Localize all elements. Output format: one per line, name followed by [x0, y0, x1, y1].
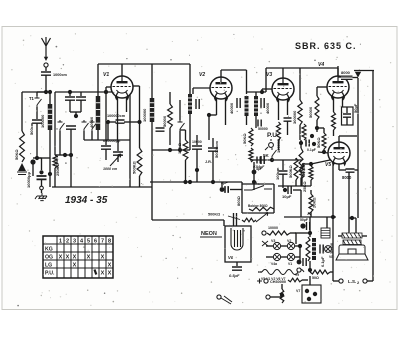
svg-text:X: X	[101, 271, 105, 277]
wire padder feed	[105, 92, 107, 145]
svg-text:100cm: 100cm	[275, 167, 280, 180]
wire stage2 vert	[189, 64, 191, 150]
svg-text:X: X	[73, 263, 77, 269]
wire 283 down	[282, 174, 284, 188]
wire IF2 sec bottom	[255, 116, 257, 128]
wire pot20k stub	[310, 190, 312, 194]
wire osc edge low	[54, 168, 56, 187]
node v4b b	[312, 142, 316, 146]
antenna terminal	[44, 63, 48, 67]
switch wave A	[58, 120, 65, 131]
ground antenna cap	[35, 193, 47, 201]
wire ch right	[302, 279, 308, 281]
coil choke	[312, 238, 316, 260]
box V6	[225, 226, 251, 262]
wire audio bus	[250, 159, 302, 161]
capacitor trimmer B	[76, 97, 86, 100]
wire V4 top stub	[337, 68, 339, 77]
wire 4uF stem	[221, 182, 223, 187]
wire V1 cath drop	[117, 118, 119, 140]
lamp fuse V8	[325, 246, 332, 253]
svg-text:V9: V9	[295, 273, 299, 277]
wire v4b up	[323, 128, 325, 133]
svg-text:OG: OG	[45, 255, 53, 261]
svg-text:7: 7	[101, 239, 104, 245]
svg-text:500KΩ: 500KΩ	[132, 160, 137, 174]
svg-text:X: X	[108, 263, 112, 269]
capacitor electrolytic psu	[300, 223, 305, 228]
wire osc top right	[96, 91, 130, 93]
resistor V2 screen	[168, 104, 173, 128]
switch T1	[35, 96, 42, 107]
capacitor 0.5uF	[232, 267, 242, 270]
node bus b	[211, 180, 215, 184]
wire 8000 right	[353, 77, 359, 79]
wire PU down	[271, 158, 273, 160]
wire xfmr feed	[349, 217, 356, 219]
capacitor screen	[156, 128, 165, 131]
wire jog	[37, 157, 42, 159]
capacitor psu3	[303, 258, 306, 266]
node PU bus	[270, 158, 274, 162]
wire right rail a	[357, 78, 359, 140]
wire main bus 182	[150, 181, 242, 183]
resistor V3 anode	[298, 100, 302, 125]
svg-text:20KΩ: 20KΩ	[312, 197, 317, 208]
wire 50uF top	[346, 107, 348, 113]
wire c50k down	[212, 151, 214, 182]
wire padder down	[105, 149, 107, 160]
wire V2 pin2	[225, 98, 227, 110]
wire V2 cath	[209, 114, 217, 116]
svg-text:50μF: 50μF	[300, 218, 308, 222]
wire bobine left edge	[241, 182, 243, 213]
svg-text:V1: V1	[103, 72, 109, 78]
lamp V3a	[273, 242, 280, 249]
wire V1 pin right	[126, 97, 128, 112]
wire far right rail	[357, 140, 359, 218]
resistor 10000 h	[267, 231, 290, 235]
wire lamps right2	[295, 256, 300, 258]
wire V4 to 8000	[338, 76, 341, 78]
wire V3 top bus	[266, 67, 338, 69]
wire trimmer B stub	[80, 92, 82, 96]
capacitor V5 bypass	[346, 169, 355, 172]
wire V2 cath drop	[208, 115, 210, 140]
wire ant to switch col	[37, 91, 46, 93]
svg-text:100000: 100000	[40, 114, 45, 128]
node osc left	[63, 153, 67, 157]
svg-text:300000: 300000	[292, 110, 297, 124]
wire left rail top	[21, 92, 23, 131]
resistor choke zig	[306, 237, 310, 261]
wire r1m down	[185, 160, 187, 182]
svg-text:10000μμ: 10000μμ	[26, 171, 31, 188]
terminal heater	[262, 231, 266, 235]
wire blob down	[32, 164, 34, 176]
wire lamps row2	[281, 256, 287, 258]
wire V1 pin left	[117, 97, 119, 118]
output tube V5	[328, 142, 350, 167]
svg-text:8: 8	[108, 239, 111, 245]
wiper arrow pot	[256, 213, 268, 223]
wire osc mid drop	[70, 155, 72, 187]
capacitor padder	[101, 146, 111, 149]
wire V4 grid	[317, 86, 327, 88]
terminal PU jack	[269, 143, 274, 148]
svg-text:2: 2	[66, 239, 69, 245]
wire chain drop	[281, 284, 283, 289]
wire V1 grid	[106, 86, 111, 88]
switch Ik	[244, 186, 272, 191]
resistor V3 bias	[277, 122, 281, 140]
capacitor 1000cm antenna	[41, 72, 51, 75]
wire 25K top link	[302, 163, 311, 165]
wire V1 anode down	[139, 86, 141, 148]
svg-text:L.S.: L.S.	[348, 279, 356, 284]
capacitor 4uF	[225, 186, 228, 193]
wire V1 left drop	[97, 64, 99, 92]
wire V3 grid drop	[261, 89, 263, 92]
wire V5 top	[338, 136, 340, 142]
wire 4uF right	[230, 189, 242, 191]
wire IF1 top	[151, 64, 153, 98]
wire coil bottom	[49, 130, 51, 174]
wire oscillator box	[54, 92, 56, 155]
svg-text:LG: LG	[45, 263, 52, 269]
svg-text:V4a: V4a	[271, 262, 277, 266]
wire c50k up	[212, 138, 214, 147]
wire 250K down	[300, 178, 302, 186]
wire xfmr drop b	[355, 218, 357, 233]
svg-text:100000: 100000	[142, 108, 147, 122]
svg-text:X: X	[66, 255, 70, 261]
coil IF2 primary	[245, 96, 249, 116]
wire trimmer mid down	[75, 112, 77, 118]
wire circ to gnd	[41, 190, 43, 193]
wire IF2 top bus	[247, 91, 267, 93]
resistor bobine 800	[249, 207, 274, 211]
capacitor 5K coupling	[261, 156, 264, 164]
svg-text:V3: V3	[271, 239, 275, 243]
coil IF1 primary	[150, 98, 155, 122]
capacitor 100000cm	[116, 120, 125, 123]
wire V4 grid drop	[316, 87, 318, 96]
wire xfmr left tap	[338, 235, 342, 237]
wire V1 top	[121, 64, 123, 76]
wire neon feed b	[236, 213, 238, 226]
wire osc bottom bus	[55, 154, 71, 156]
terminal CH	[264, 279, 268, 283]
svg-text:3: 3	[73, 239, 76, 245]
trimmer arrow	[110, 154, 121, 166]
capacitor 10000cm	[192, 146, 202, 149]
resistor hum	[280, 289, 284, 303]
wire c10k down	[196, 149, 198, 182]
plug PU	[265, 139, 271, 150]
node padder top	[104, 90, 108, 94]
coil IF2 secondary	[254, 96, 258, 116]
svg-text:V1: V1	[288, 262, 292, 266]
coil antenna L1	[48, 104, 53, 130]
wire lamp bend2	[295, 233, 297, 244]
wire xfmr right tap	[362, 235, 367, 237]
wire v4 top right link	[339, 135, 345, 137]
arrow x	[262, 241, 268, 246]
svg-text:T1: T1	[29, 96, 35, 101]
pentode V4	[327, 76, 349, 101]
node choke bot	[308, 268, 312, 272]
wire node to cap2	[41, 158, 43, 170]
resistor 500K b	[249, 148, 253, 162]
wire node ext	[33, 157, 37, 159]
underline NEON	[200, 236, 222, 238]
svg-text:V2: V2	[287, 239, 291, 243]
wire trimmer join	[70, 111, 81, 113]
svg-text:X: X	[59, 255, 63, 261]
wire V3 left rail	[265, 68, 267, 92]
wire lamps row1	[281, 245, 287, 247]
wire V3 res top	[299, 68, 301, 100]
wire choke bottom	[309, 261, 311, 270]
tuning indicator V6	[231, 228, 243, 250]
svg-text:X: X	[101, 255, 105, 261]
resistor 1M	[183, 140, 188, 160]
resistor 250K osc edge	[53, 155, 57, 168]
node left mid	[35, 156, 39, 160]
wire v3 bottom bus	[278, 185, 311, 187]
capacitor trimmer osc	[113, 152, 123, 155]
svg-text:V5: V5	[325, 162, 331, 168]
node lamp rail	[298, 244, 302, 248]
wire 10uF drop	[300, 190, 302, 217]
node antenna junction	[44, 90, 48, 94]
wire r1m hook	[180, 129, 186, 131]
node V3 junction	[299, 141, 303, 145]
svg-text:V7: V7	[296, 289, 300, 293]
wire L2 top	[97, 92, 99, 96]
svg-text:X: X	[87, 255, 91, 261]
node v4 grid bot	[315, 126, 319, 130]
wire trimmer A down	[69, 100, 71, 112]
wire 500K up	[295, 158, 297, 160]
wire res screen top	[169, 92, 171, 104]
wire bottom left	[49, 174, 51, 187]
svg-text:V4: V4	[318, 62, 324, 68]
capacitor 500cm	[32, 120, 42, 123]
wire osc top	[55, 91, 96, 93]
resistor V5 bias	[309, 166, 313, 180]
svg-text:X: X	[108, 271, 112, 277]
capacitor to ground	[37, 176, 47, 179]
arrow 500K	[228, 216, 240, 220]
svg-text:25KΩ: 25KΩ	[302, 181, 307, 192]
wire lamps left2	[266, 256, 273, 258]
wire trimmer osc up	[117, 140, 119, 151]
svg-text:V6: V6	[228, 255, 234, 260]
svg-text:50Ω: 50Ω	[312, 276, 319, 280]
wire 50ohm right	[330, 271, 333, 273]
wire v5 right	[345, 135, 357, 137]
capacitor 50uF	[343, 114, 351, 117]
speaker frame	[339, 245, 365, 254]
wire V1 anode out	[131, 85, 140, 87]
wire lamp bend	[290, 232, 296, 234]
wire V7 up	[309, 276, 311, 285]
node 4uF blob	[220, 187, 225, 192]
wire V4 pins	[333, 97, 335, 112]
wire V5 down	[348, 172, 350, 218]
wire lamp row1 right	[295, 245, 300, 247]
wire V1 cath	[108, 121, 116, 123]
svg-text:100000cm: 100000cm	[107, 114, 126, 118]
resistor 20K pot	[309, 194, 313, 212]
capacitor V2 grid tank	[196, 99, 199, 109]
wire V1 cath right	[124, 121, 140, 123]
wire V4 top	[337, 66, 339, 76]
wire 50K down	[323, 149, 325, 152]
node stage2 a	[168, 148, 172, 152]
switch wave C	[90, 120, 97, 131]
node psu bus	[308, 231, 312, 235]
resistor 50K ohm antenna	[20, 131, 25, 162]
wire left rail horiz	[22, 91, 46, 93]
wire psu bus	[295, 232, 310, 234]
wire r1m up	[185, 130, 187, 140]
wire V4 pin2	[342, 97, 344, 107]
capacitor 50000n	[258, 120, 261, 127]
wire pu switch drop	[253, 182, 255, 190]
svg-text:10μF: 10μF	[282, 194, 292, 199]
node trimmer mid	[74, 114, 78, 118]
svg-text:V3: V3	[266, 72, 272, 78]
node pu drop	[252, 180, 256, 184]
resistor ch	[288, 278, 302, 282]
scan noise speckles	[8, 33, 393, 306]
terminal V9	[297, 268, 301, 272]
svg-text:0.5μF: 0.5μF	[229, 273, 240, 278]
svg-text:0.1μF: 0.1μF	[320, 256, 325, 267]
resistor 50ohm	[310, 270, 330, 274]
wire coil top	[49, 92, 51, 104]
capacitor psu plates	[307, 222, 310, 230]
wire V3 grid	[262, 88, 272, 90]
svg-text:1000 cm: 1000 cm	[103, 167, 118, 171]
wire V3 top	[282, 68, 284, 78]
wire T1 to cap	[36, 107, 38, 119]
box V7	[302, 285, 321, 303]
coil oscillator L2	[96, 96, 101, 130]
terminal gnd circ	[40, 186, 44, 190]
triode V1	[111, 76, 133, 101]
svg-text:6: 6	[94, 239, 97, 245]
wire V2 grid	[193, 87, 210, 89]
wire trimmer osc down	[117, 155, 119, 162]
node anode cath	[137, 120, 141, 124]
svg-text:4μF: 4μF	[220, 181, 228, 185]
capacitor V3 cath	[284, 118, 292, 121]
wire top cap down	[372, 71, 374, 216]
wire trimmer feed	[69, 92, 71, 96]
wire bobine top edge	[242, 183, 274, 185]
svg-text:8000: 8000	[341, 70, 351, 75]
svg-text:50000: 50000	[308, 106, 313, 118]
wire lamps left1	[266, 245, 273, 247]
wire IF2 sec top	[255, 92, 257, 96]
speaker magnet	[348, 249, 356, 254]
svg-text:CH30000: CH30000	[270, 280, 286, 284]
resistor AVC 500K	[249, 128, 253, 146]
node 10uF	[283, 188, 287, 192]
resistor 50K v4	[322, 133, 326, 149]
node c10k	[195, 168, 199, 172]
wire res screen bot	[169, 128, 171, 145]
node v4 grid2	[322, 150, 326, 154]
wire winding drop	[326, 217, 328, 228]
wire hum link	[270, 296, 282, 298]
node AVC blob	[252, 170, 257, 175]
lamp V4a	[273, 253, 280, 260]
terminal hum	[266, 295, 270, 299]
svg-text:5: 5	[87, 239, 90, 245]
node cap2 top	[39, 170, 43, 174]
wire V2 top	[220, 70, 222, 77]
wire V3 pins	[278, 99, 280, 120]
wire L2 bottom	[97, 130, 99, 140]
svg-text:500KΩ: 500KΩ	[288, 164, 293, 178]
node coil top	[48, 90, 52, 94]
pin V7 a	[305, 289, 309, 293]
svg-text:J.R.: J.R.	[205, 160, 212, 164]
wire bus bottom left	[52, 186, 152, 188]
node hum	[280, 293, 284, 297]
wire cap2 to circ	[41, 179, 43, 186]
wire IF1 bottom	[151, 122, 153, 187]
svg-text:40000: 40000	[89, 116, 94, 128]
node V2 cathode	[207, 113, 211, 117]
wire res500k bot	[139, 176, 141, 187]
node V1 cath	[106, 120, 110, 124]
wire heater chain	[262, 270, 304, 275]
node bus a	[183, 180, 187, 184]
wire V2 anode drop	[246, 70, 248, 94]
coil 8000 field	[341, 76, 353, 81]
wire trimmer B down	[80, 100, 82, 112]
wire heater left	[258, 271, 262, 273]
node blob 33	[30, 159, 35, 164]
wire V3 bias down	[278, 140, 280, 150]
wire T1 column	[36, 92, 38, 96]
wire power bus 217	[284, 216, 336, 218]
wire speaker rail right	[372, 215, 374, 281]
wire LS left link	[333, 280, 339, 282]
wire c10k up	[196, 135, 198, 145]
wire V6 bottom	[236, 262, 238, 266]
wire antenna to cap	[45, 67, 47, 71]
plus sign	[257, 279, 262, 284]
wire V1 grid drop	[105, 87, 107, 92]
resistor volume pot	[242, 218, 256, 222]
wire antenna cap down	[45, 75, 47, 92]
switch mains	[221, 296, 232, 304]
svg-text:50μF: 50μF	[353, 103, 358, 113]
wire step down	[151, 187, 153, 220]
wire v4 cath down	[333, 130, 335, 136]
wire V2 top bus	[221, 69, 247, 71]
wire psu rail	[309, 217, 311, 237]
switch band T	[178, 120, 185, 131]
node v5 bias	[309, 162, 313, 166]
